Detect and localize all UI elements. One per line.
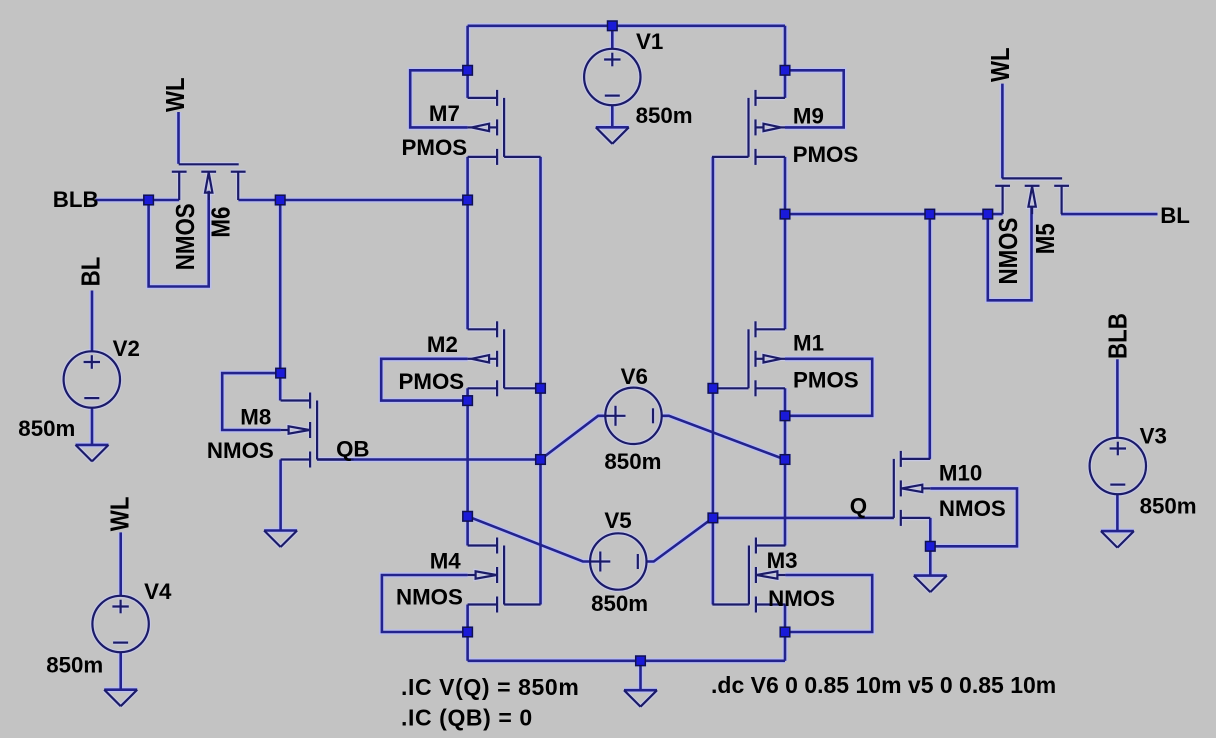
wire M6 bulk U-loop xyxy=(149,191,209,287)
junction M7 bulk/drain xyxy=(463,66,473,76)
node Q xyxy=(708,513,718,523)
ground V3 xyxy=(1101,531,1134,548)
svg-text:M5: M5 xyxy=(1031,223,1060,254)
svg-text:.IC (QB) = 0: .IC (QB) = 0 xyxy=(401,705,533,731)
wire right drain rail top xyxy=(784,26,787,98)
voltage source V4 xyxy=(92,596,148,652)
junction M2 gate tap xyxy=(536,384,546,394)
svg-text:850m: 850m xyxy=(1140,494,1197,519)
wire M8 source to ground xyxy=(279,460,282,531)
svg-text:PMOS: PMOS xyxy=(793,368,859,393)
transistor M4 NMOS xyxy=(468,538,541,613)
svg-text:850m: 850m xyxy=(18,416,75,441)
wire V5 plus diagonal xyxy=(468,516,590,561)
transistor M7 PMOS xyxy=(468,90,541,165)
wire M4 bulk loop xyxy=(382,575,468,632)
svg-text:BL: BL xyxy=(1160,203,1190,228)
svg-text:PMOS: PMOS xyxy=(399,369,465,394)
wire V6 minus diagonal xyxy=(662,416,785,460)
wire M3 bulk loop xyxy=(785,575,872,632)
junction VDD/V1 xyxy=(608,21,618,31)
svg-text:M2: M2 xyxy=(427,332,458,357)
wire right gate rail xyxy=(712,157,715,605)
svg-text:NMOS: NMOS xyxy=(768,586,835,611)
ground V2 xyxy=(76,445,109,462)
junction V6 minus/right rail xyxy=(780,455,790,465)
svg-text:M4: M4 xyxy=(430,549,462,574)
svg-text:NMOS: NMOS xyxy=(396,584,463,609)
wire BLB label to V3 xyxy=(1116,359,1119,438)
ground V1 xyxy=(596,127,629,144)
svg-text:M8: M8 xyxy=(240,405,271,430)
wire V1 bottom lead xyxy=(611,105,614,127)
junction M2 bulk loop xyxy=(463,396,473,406)
wire V1 top lead xyxy=(611,26,614,49)
wire ground stub bottom xyxy=(639,661,642,690)
svg-text:PMOS: PMOS xyxy=(793,142,859,167)
svg-text:M1: M1 xyxy=(793,331,824,356)
svg-text:V1: V1 xyxy=(636,29,663,54)
ground V4 xyxy=(104,690,137,707)
junction M4 drain/V5 xyxy=(463,512,473,522)
transistor M5 NMOS (rotated) xyxy=(995,178,1069,214)
wire M8 bulk loop xyxy=(222,373,280,430)
transistor M10 NMOS (mirrored) xyxy=(857,451,930,526)
wire WL to M6 gate xyxy=(177,112,180,164)
wire left drain rail top xyxy=(466,26,469,98)
junction M1 gate tap xyxy=(708,384,718,394)
svg-text:BL: BL xyxy=(77,257,106,287)
svg-text:M7: M7 xyxy=(429,101,460,126)
wire BL label to V2 xyxy=(91,291,94,352)
node QB xyxy=(536,455,546,465)
wire M7 bulk loop xyxy=(410,70,467,127)
wire BLB row xyxy=(96,199,180,202)
junction M6/M8 rail xyxy=(275,195,285,205)
junction M5 bulk/BL row xyxy=(983,209,993,219)
svg-text:V6: V6 xyxy=(621,364,648,389)
transistor M1 PMOS (mirrored) xyxy=(712,321,785,396)
voltage source V3 xyxy=(1090,438,1146,494)
wire left rail M7-M2 xyxy=(466,157,469,329)
svg-text:NMOS: NMOS xyxy=(207,438,274,463)
wire M9 bulk loop xyxy=(785,70,844,127)
voltage source V2 xyxy=(64,351,120,407)
wire M1 bulk loop xyxy=(785,359,872,416)
wire V5 minus diagonal to Q xyxy=(647,518,713,562)
wire VDD top rail xyxy=(468,24,785,27)
junction M8 bulk loop xyxy=(276,368,286,378)
svg-text:M9: M9 xyxy=(793,104,824,129)
svg-text:V2: V2 xyxy=(113,336,140,361)
wire V2 to ground xyxy=(91,408,94,445)
svg-text:M10: M10 xyxy=(939,460,982,485)
transistor M8 NMOS xyxy=(281,393,354,468)
svg-text:NMOS: NMOS xyxy=(995,218,1024,285)
svg-text:Q: Q xyxy=(850,494,867,519)
svg-text:QB: QB xyxy=(336,437,369,462)
wire V3 to ground xyxy=(1116,494,1119,531)
svg-text:NMOS: NMOS xyxy=(939,496,1006,521)
junction M10 rail/BL row xyxy=(925,209,935,219)
voltage source V6 (horizontal) xyxy=(605,388,661,444)
transistor M2 PMOS xyxy=(468,321,541,396)
svg-text:.dc V6 0 0.85 10m v5 0 0.85 10: .dc V6 0 0.85 10m v5 0 0.85 10m xyxy=(711,672,1056,698)
transistor M3 NMOS (mirrored) xyxy=(712,538,785,613)
wire node Q row xyxy=(713,517,894,520)
wire M10 source to ground xyxy=(929,518,932,576)
junction M10 source/bulk xyxy=(926,542,936,552)
wire right rail M1-M3 xyxy=(784,388,787,545)
svg-text:WL: WL xyxy=(987,47,1016,82)
svg-text:BLB: BLB xyxy=(53,187,99,212)
svg-text:V5: V5 xyxy=(604,508,631,533)
svg-text:.IC V(Q) = 850m: .IC V(Q) = 850m xyxy=(401,674,579,700)
wire M4 source riser xyxy=(466,605,469,661)
transistor M9 PMOS (mirrored) xyxy=(712,90,785,165)
svg-text:M3: M3 xyxy=(767,548,798,573)
ground M10 source xyxy=(914,576,947,593)
svg-text:850m: 850m xyxy=(46,652,103,677)
wire left rail M2-M4 xyxy=(466,388,469,545)
svg-text:WL: WL xyxy=(161,77,190,112)
wire left gate rail xyxy=(539,157,542,605)
wire M10 drain rail xyxy=(928,214,931,459)
wire M2 bulk loop xyxy=(381,359,467,401)
wire BL row right xyxy=(785,213,1003,216)
wire V4 to ground xyxy=(119,652,122,690)
junction BLB/M6 bulk xyxy=(144,195,154,205)
wire V6 plus diagonal to QB xyxy=(541,416,606,460)
svg-text:850m: 850m xyxy=(604,449,661,474)
wire M3 source riser xyxy=(784,605,787,661)
ground bottom rail xyxy=(624,690,657,707)
junction M9 bulk/drain xyxy=(780,66,790,76)
voltage source V1 xyxy=(584,49,640,105)
wire M10 bulk loop xyxy=(930,488,1017,546)
voltage source V5 (horizontal) xyxy=(590,533,646,589)
wire M8 drain rail xyxy=(279,200,282,401)
svg-text:BLB: BLB xyxy=(1104,313,1133,359)
wire right rail M9-M1 xyxy=(784,157,787,329)
junction BL/right rail xyxy=(780,209,790,219)
svg-text:850m: 850m xyxy=(591,591,648,616)
junction M1 bulk loop xyxy=(780,411,790,421)
wire bottom ground rail xyxy=(468,659,785,662)
wire node QB row xyxy=(317,458,540,461)
svg-text:WL: WL xyxy=(106,496,135,531)
svg-text:NMOS: NMOS xyxy=(172,203,201,270)
svg-text:V4: V4 xyxy=(144,579,172,604)
junction bottom rail/ground xyxy=(636,656,646,666)
wire M6 to left rail xyxy=(238,199,467,202)
junction BLB/left rail xyxy=(463,195,473,205)
svg-text:PMOS: PMOS xyxy=(402,135,468,160)
junction M3 source/bulk xyxy=(780,627,790,637)
svg-text:V3: V3 xyxy=(1140,423,1167,448)
svg-text:850m: 850m xyxy=(636,103,693,128)
transistor M6 NMOS (rotated) xyxy=(172,164,246,200)
wire WL to M5 gate xyxy=(1001,84,1004,179)
wire M5 source to BL xyxy=(1061,213,1157,216)
ground M8 source xyxy=(264,531,297,548)
wire WL label to V4 xyxy=(119,532,122,596)
junction M4 source/bulk xyxy=(463,627,473,637)
wire M5 bulk U-loop xyxy=(988,206,1032,300)
svg-text:M6: M6 xyxy=(207,207,236,238)
